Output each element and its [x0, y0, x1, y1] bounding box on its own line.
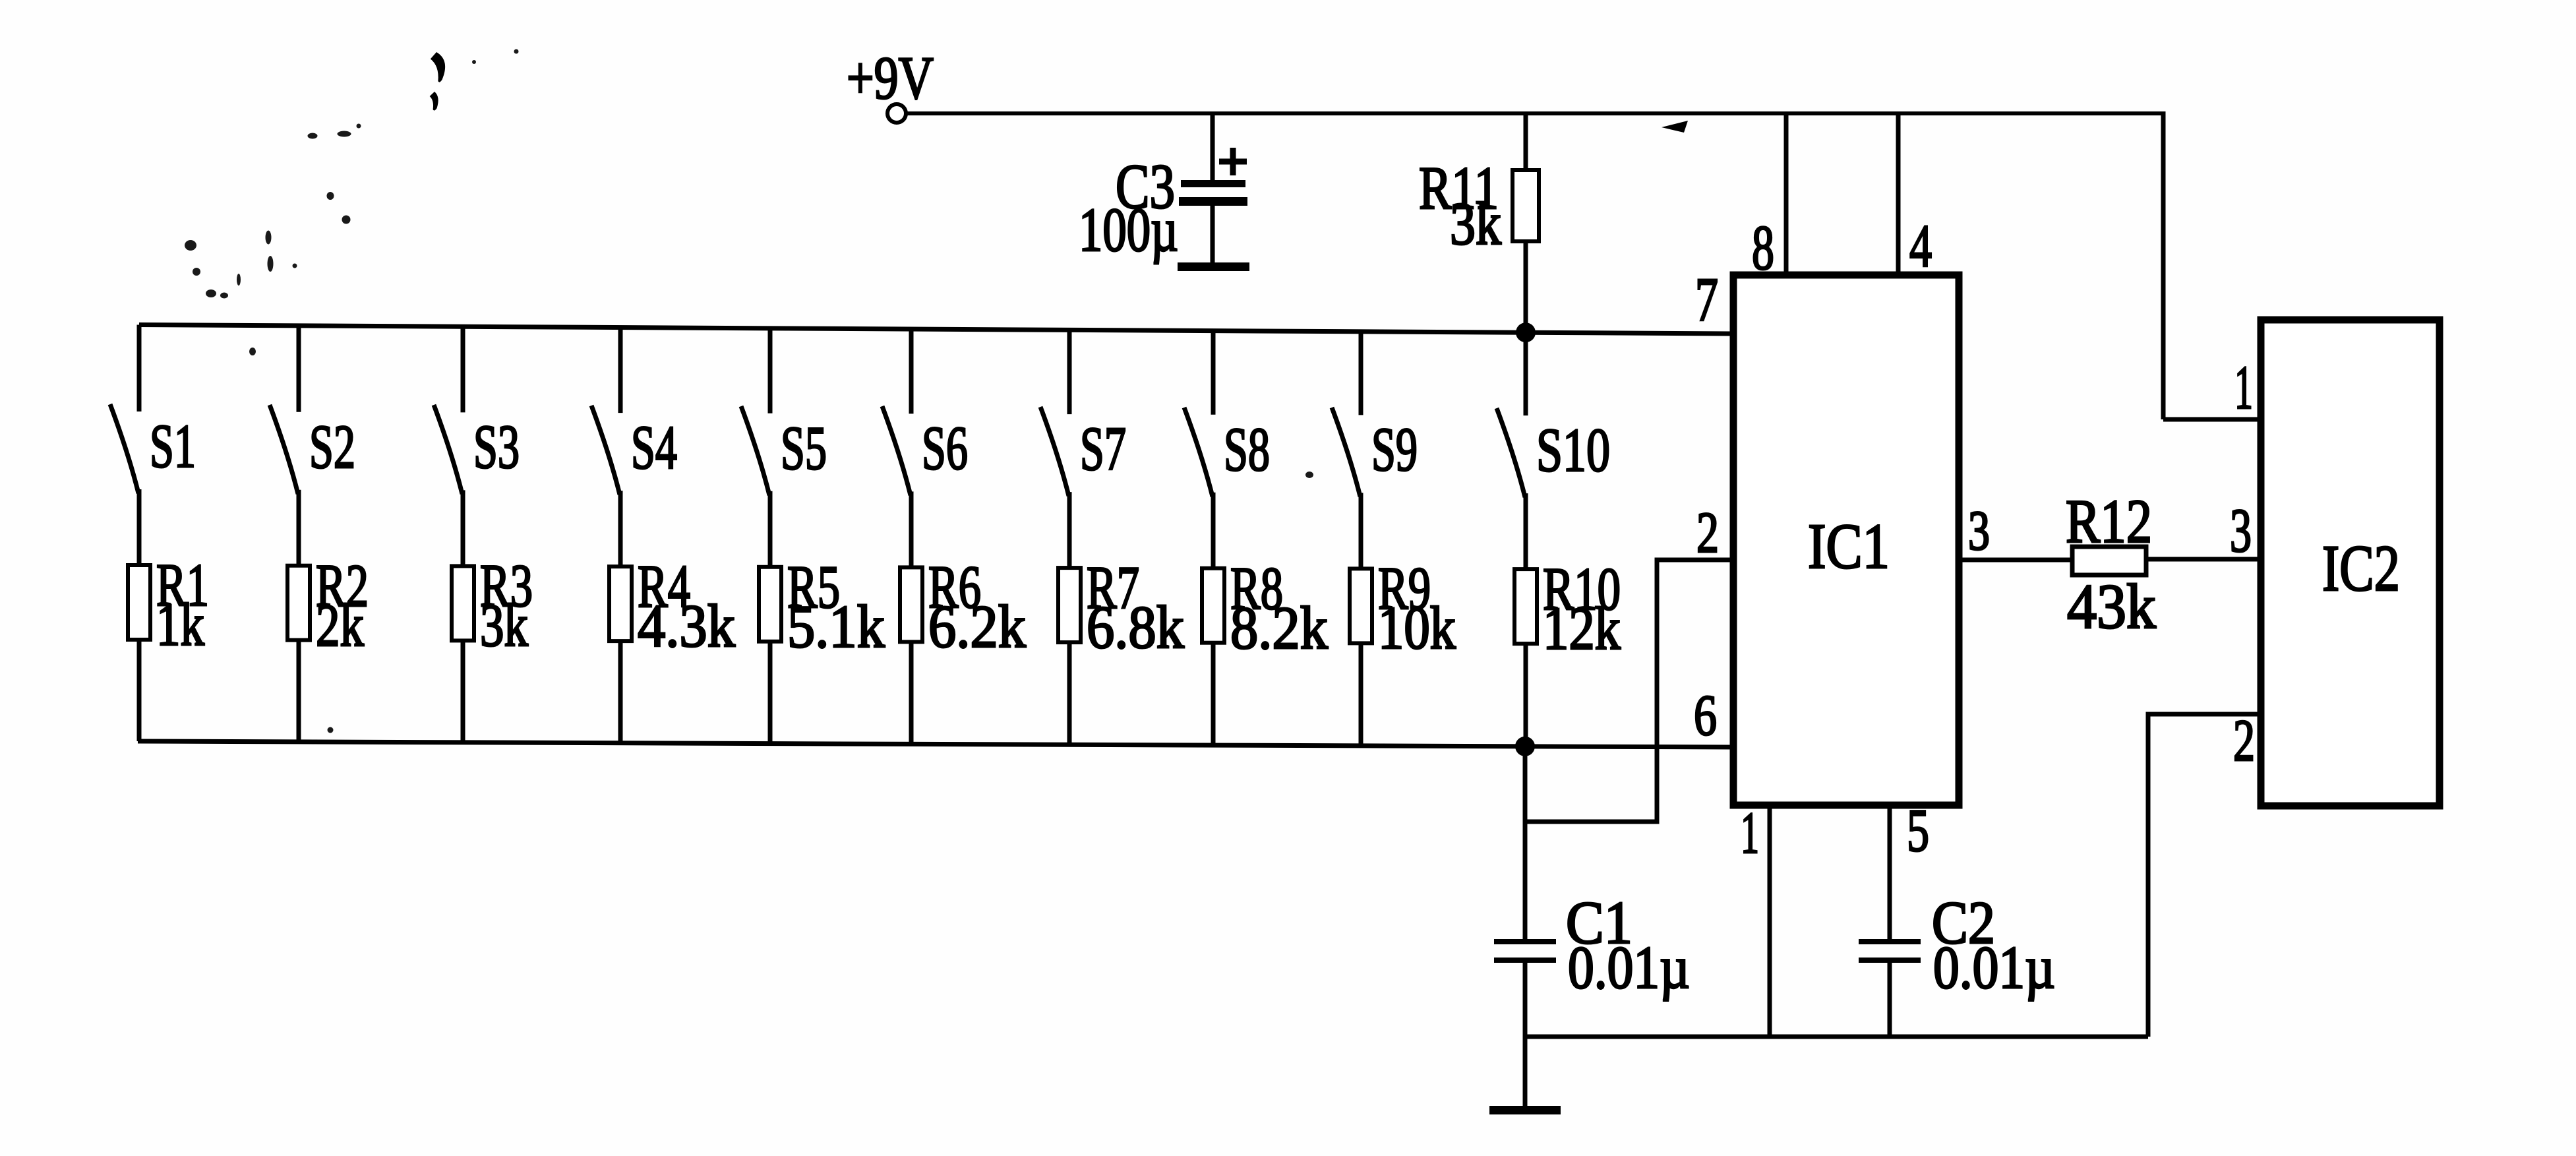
- svg-text:1: 1: [1741, 801, 1759, 866]
- svg-text:4.3k: 4.3k: [638, 592, 735, 659]
- svg-text:0.01µ: 0.01µ: [1933, 934, 2055, 1001]
- svg-text:S6: S6: [922, 414, 968, 483]
- svg-text:5: 5: [1907, 797, 1929, 864]
- svg-text:3k: 3k: [480, 592, 528, 659]
- svg-text:IC2: IC2: [2322, 532, 2400, 605]
- svg-text:2: 2: [1696, 501, 1719, 565]
- svg-text:3k: 3k: [1450, 190, 1501, 257]
- svg-text:10k: 10k: [1378, 594, 1456, 661]
- svg-text:S8: S8: [1224, 415, 1270, 484]
- svg-text:3: 3: [2230, 497, 2252, 565]
- svg-text:+9V: +9V: [847, 44, 934, 111]
- svg-text:S3: S3: [473, 413, 520, 481]
- svg-text:S2: S2: [309, 413, 355, 481]
- svg-text:1k: 1k: [156, 591, 204, 658]
- svg-text:0.01µ: 0.01µ: [1568, 934, 1690, 1001]
- svg-text:43k: 43k: [2067, 571, 2156, 642]
- svg-text:100µ: 100µ: [1079, 196, 1178, 264]
- svg-text:S10: S10: [1536, 416, 1610, 485]
- svg-text:S5: S5: [781, 414, 827, 483]
- svg-text:IC1: IC1: [1808, 511, 1890, 582]
- svg-text:12k: 12k: [1543, 595, 1621, 662]
- svg-text:6.2k: 6.2k: [928, 593, 1026, 660]
- svg-text:5.1k: 5.1k: [787, 593, 885, 660]
- svg-text:4: 4: [1909, 212, 1932, 280]
- svg-text:2k: 2k: [316, 592, 364, 659]
- svg-text:S4: S4: [631, 413, 677, 482]
- svg-text:2: 2: [2233, 708, 2255, 774]
- svg-text:R12: R12: [2066, 487, 2152, 556]
- svg-text:8: 8: [1752, 212, 1774, 283]
- svg-text:S9: S9: [1371, 415, 1418, 484]
- svg-text:6.8k: 6.8k: [1087, 593, 1184, 661]
- svg-text:S7: S7: [1080, 415, 1126, 483]
- svg-text:S1: S1: [150, 412, 196, 481]
- svg-text:6: 6: [1694, 684, 1717, 748]
- svg-text:7: 7: [1695, 266, 1718, 334]
- svg-text:8.2k: 8.2k: [1230, 594, 1328, 661]
- svg-text:1: 1: [2234, 353, 2253, 422]
- svg-text:3: 3: [1968, 499, 1990, 562]
